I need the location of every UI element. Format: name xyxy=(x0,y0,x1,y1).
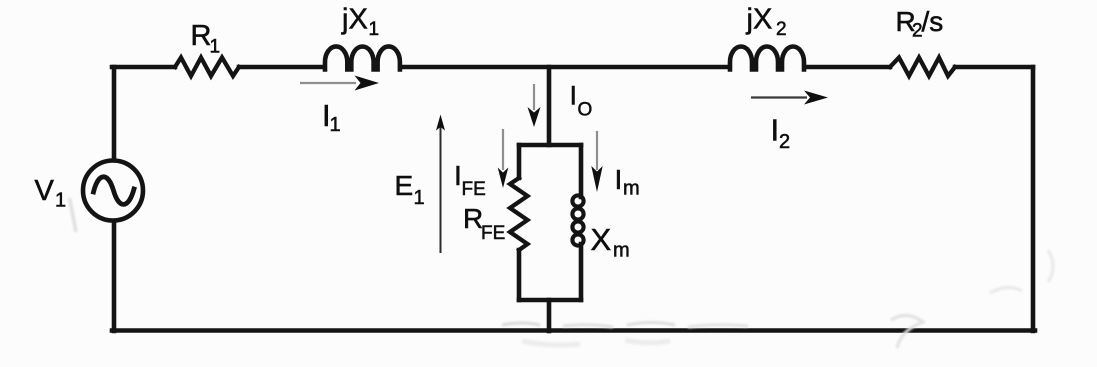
label R2/s xyxy=(896,6,944,42)
arrow IFE head xyxy=(498,168,509,189)
wire top-center horizontal (jX1 to jX2 through node) xyxy=(402,65,728,70)
svg-text:R: R xyxy=(191,20,212,52)
label I1 xyxy=(322,98,341,136)
svg-text:FE: FE xyxy=(462,179,486,200)
svg-text:1: 1 xyxy=(330,114,341,136)
svg-text:V: V xyxy=(35,175,55,207)
arrow I2 head xyxy=(804,91,828,105)
svg-text:1: 1 xyxy=(55,190,66,212)
svg-text:2: 2 xyxy=(776,19,787,40)
arrow IO head xyxy=(528,107,541,127)
wire right vertical xyxy=(1031,67,1036,331)
arrow E1 shaft xyxy=(440,127,442,253)
label R1 xyxy=(191,20,221,58)
arrow E1 head xyxy=(436,115,445,131)
svg-text:O: O xyxy=(578,100,593,121)
wire center drop upper xyxy=(547,67,552,145)
label Im xyxy=(615,164,640,200)
wire center drop lower xyxy=(547,300,552,331)
label IFE xyxy=(454,160,486,200)
arrow IFE shaft xyxy=(502,129,504,170)
wire top-left horizontal xyxy=(112,65,175,70)
resistor R2/s xyxy=(890,58,955,77)
label RFE xyxy=(463,203,505,244)
shunt box left edge segments xyxy=(517,145,522,300)
arrow IO shaft xyxy=(533,84,535,110)
svg-text:1: 1 xyxy=(369,19,380,40)
label V1 xyxy=(35,175,67,212)
inductor jX1 xyxy=(325,46,400,69)
arrow I2 shaft xyxy=(751,96,807,98)
wire top-mid horizontal (R1 to jX1) xyxy=(239,65,323,70)
wire top-right horizontal (jX2 to R2) xyxy=(806,65,890,70)
inductor Xm (vertical coil of 4 rings) xyxy=(572,195,583,245)
shunt box bottom bar xyxy=(519,298,581,303)
arrow Im shaft xyxy=(596,131,598,170)
svg-text:/s: /s xyxy=(922,6,944,37)
resistor R1 xyxy=(175,58,239,77)
svg-text:2: 2 xyxy=(779,131,790,153)
label I2 xyxy=(771,113,791,154)
svg-text:FE: FE xyxy=(481,223,505,244)
arrow Im head xyxy=(591,166,602,192)
svg-text:jX: jX xyxy=(746,4,773,36)
label E1 xyxy=(395,170,425,209)
svg-text:E: E xyxy=(395,170,414,201)
source V1 sine wave xyxy=(94,177,135,205)
svg-text:jX: jX xyxy=(341,4,368,36)
wire left vertical lower xyxy=(112,223,117,331)
svg-text:1: 1 xyxy=(210,37,221,58)
wire left vertical upper xyxy=(112,67,117,159)
shunt box right edge segments xyxy=(579,145,584,300)
wire bottom horizontal xyxy=(112,328,1035,333)
wire top-far-right horizontal xyxy=(955,65,1033,70)
svg-text:m: m xyxy=(623,178,640,200)
svg-text:I: I xyxy=(615,164,623,195)
label jX1 xyxy=(341,4,379,41)
svg-text:1: 1 xyxy=(414,187,425,209)
svg-text:I: I xyxy=(771,113,780,148)
arrow I1 shaft xyxy=(300,82,356,84)
inductor jX2 xyxy=(730,47,804,70)
svg-text:m: m xyxy=(613,240,630,262)
label IO xyxy=(570,81,593,121)
arrow I1 head xyxy=(355,76,380,91)
resistor RFE (vertical) xyxy=(510,178,528,250)
svg-text:X: X xyxy=(591,222,612,257)
svg-text:I: I xyxy=(570,81,578,111)
shunt box top bar xyxy=(519,143,581,148)
label Xm xyxy=(591,222,630,262)
source V1 circle xyxy=(83,161,143,221)
label jX2 xyxy=(746,4,787,41)
